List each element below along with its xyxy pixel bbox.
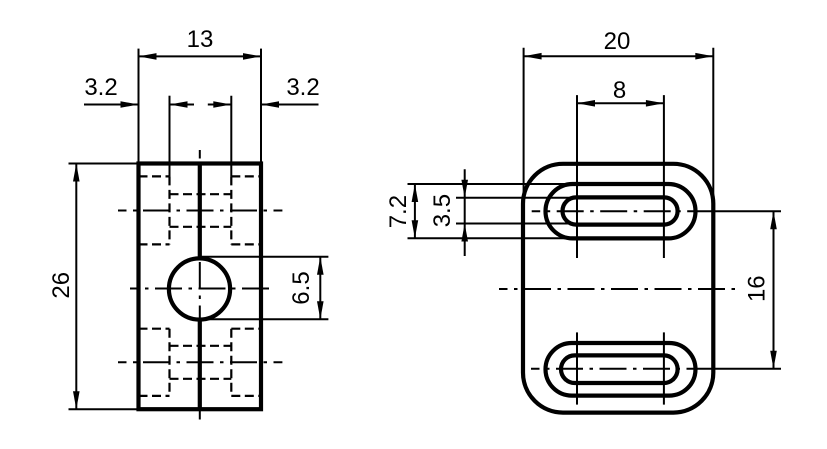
dim 20 arrow right	[695, 53, 713, 60]
top slot outer obround	[546, 184, 696, 238]
body outline rectangle	[139, 164, 262, 410]
top slot inner obround	[563, 197, 678, 224]
dim 3.5 arrow bottom (outside pointing up)	[461, 224, 468, 242]
dim 8 arrow right	[646, 100, 664, 107]
hidden lower slot right vertical	[230, 329, 232, 396]
horizontal centerline of hole	[130, 288, 273, 290]
dim 3.5 extension top	[456, 197, 575, 199]
dim 13 extension line right	[260, 49, 262, 164]
hidden lower slot outer bottom left	[139, 395, 170, 397]
dim 20 extension left	[523, 48, 525, 207]
dim 8 extension right upper	[663, 95, 665, 258]
vertical centerline through hole	[199, 150, 201, 422]
svg-text:7.2: 7.2	[385, 195, 412, 228]
svg-text:3.5: 3.5	[429, 194, 456, 227]
dim 20 extension right	[712, 48, 714, 207]
dim 6.5 extension bottom	[200, 318, 329, 320]
svg-text:6.5: 6.5	[288, 271, 315, 304]
hidden slot inner bottom	[170, 226, 232, 228]
svg-text:20: 20	[604, 28, 631, 55]
dim 3.5 extension bottom	[456, 223, 575, 225]
top slot centerline	[532, 210, 716, 212]
dim 3.5 arrow top (outside pointing down)	[461, 180, 468, 198]
svg-text:3.2: 3.2	[84, 74, 117, 101]
hidden slot right vertical top	[230, 176, 232, 244]
dim 7.2 extension top	[408, 183, 574, 185]
dim 13 extension line left	[138, 49, 140, 164]
hidden lower slot inner bottom	[170, 378, 232, 380]
dim 3.2 left inner tail	[170, 104, 195, 106]
body outline rounded rectangle	[523, 164, 713, 413]
dim 8 arrow left	[577, 100, 595, 107]
bottom slot outer obround	[546, 343, 696, 396]
dim 16 line	[773, 211, 775, 369]
dim 26 arrow top	[73, 164, 80, 182]
dim 20 line	[524, 55, 714, 57]
dim 7.2 line	[414, 184, 416, 238]
bottom slot centerline	[118, 361, 282, 363]
dim 3.2 right arrow	[261, 101, 279, 108]
dim 13 arrow left	[139, 53, 157, 60]
dim 8 extension right lower	[663, 332, 665, 404]
dim 7.2 arrow top	[412, 184, 419, 202]
dim 7.2 arrow bottom	[412, 220, 419, 238]
dim 3.2 right extension (slot edge)	[230, 96, 232, 177]
hidden lower slot inner top	[170, 345, 232, 347]
dim 3.2 left inner arrow	[170, 101, 188, 108]
hidden slot outline top-left outer	[139, 175, 170, 177]
dim 3.5 line	[464, 169, 466, 256]
svg-text:3.2: 3.2	[286, 74, 319, 101]
top slot centerline extension (16 dim)	[712, 210, 781, 212]
dim 16 arrow bottom	[770, 351, 777, 369]
dim 26 extension top	[69, 163, 139, 165]
top slot centerline	[118, 210, 282, 212]
svg-text:16: 16	[744, 275, 771, 302]
dim 13 line	[139, 55, 262, 57]
dim 3.2 right tail	[261, 104, 319, 106]
dim 6.5 line	[319, 257, 321, 320]
dim 6.5 extension top	[200, 256, 329, 258]
svg-text:26: 26	[48, 272, 75, 299]
dim 6.5 arrow bottom	[317, 301, 324, 319]
hidden lower slot outer top left	[139, 328, 170, 330]
hidden slot bottom-left outer	[139, 243, 170, 245]
dim 20 arrow left	[524, 53, 542, 60]
svg-text:8: 8	[613, 77, 626, 104]
dim 26 line	[75, 164, 77, 410]
dim 3.2 right inner arrow	[213, 101, 231, 108]
bottom slot inner obround	[561, 355, 678, 383]
dim 3.2 right inner tail	[208, 104, 232, 106]
dim 26 extension bottom	[69, 408, 139, 410]
dim 3.2 left tail	[84, 104, 139, 106]
dim 8 extension left lower	[576, 332, 578, 404]
centre split line lower segment	[198, 319, 202, 409]
main horizontal centerline	[499, 288, 735, 290]
dim 13 arrow right	[243, 53, 261, 60]
hidden lower slot left vertical	[168, 329, 170, 396]
dim 6.5 arrow top	[317, 257, 324, 275]
dim 7.2 extension bottom	[408, 237, 574, 239]
svg-text:13: 13	[187, 26, 214, 53]
bottom slot centerline extension (16 dim)	[712, 368, 781, 370]
dim 16 arrow top	[770, 211, 777, 229]
hidden slot inner top	[170, 193, 232, 195]
hidden slot outline top-right outer	[231, 175, 261, 177]
dim 3.2 left extension (slot edge)	[169, 96, 171, 177]
bottom slot centerline	[531, 368, 716, 370]
dim 26 arrow bottom	[73, 391, 80, 409]
hidden lower slot outer bottom right	[231, 395, 261, 397]
dim 8 extension left upper	[576, 95, 578, 258]
hole circle 6.5	[169, 258, 230, 319]
centre split line upper segment	[198, 164, 202, 259]
hidden slot left vertical top	[168, 176, 170, 244]
dim 3.2 left arrow	[121, 101, 139, 108]
hidden lower slot outer top right	[231, 328, 261, 330]
hidden slot bottom-right outer	[231, 243, 261, 245]
dim 8 line	[577, 102, 664, 104]
